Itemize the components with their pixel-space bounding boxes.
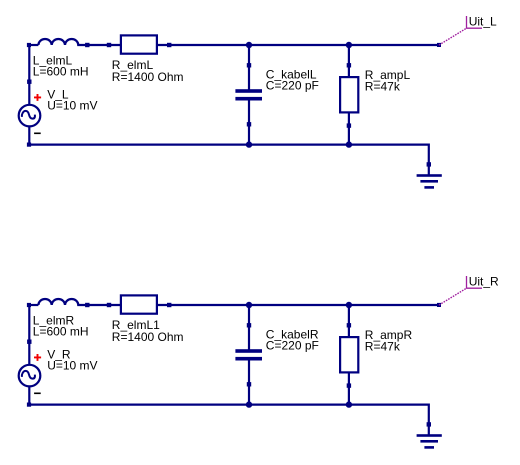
label V_L name and value xyxy=(47,88,97,113)
resistor R_elmL xyxy=(107,35,172,53)
node Uit_L name text xyxy=(469,14,497,28)
wire: capacitor C_kabelR top lead xyxy=(247,305,251,350)
inductor L_elmR xyxy=(38,299,121,307)
wire: resistor R_ampL bottom lead xyxy=(347,112,351,144)
junction: resistor R_ampL bottom node xyxy=(346,141,352,147)
wire: resistor R_ampR top lead xyxy=(347,305,351,337)
ac voltage source V_R xyxy=(19,365,41,387)
minus sign of V_R xyxy=(34,392,41,394)
svg-text:R=47k: R=47k xyxy=(365,79,401,93)
svg-text:U=10 mV: U=10 mV xyxy=(47,359,97,373)
label R_elmL name and value xyxy=(112,58,184,84)
svg-text:L=600 mH: L=600 mH xyxy=(33,325,89,339)
junction: capacitor C_kabelR bottom node xyxy=(246,401,252,407)
ac voltage source V_L xyxy=(19,105,41,127)
label R_elmL1 name and value xyxy=(112,318,184,344)
junction: capacitor C_kabelL bottom node xyxy=(246,141,252,147)
wire: top-left corner to inductor L_elmL xyxy=(27,43,39,47)
svg-text:C=220 pF: C=220 pF xyxy=(266,79,319,93)
svg-text:C=220 pF: C=220 pF xyxy=(266,339,319,353)
wire: capacitor C_kabelR bottom lead xyxy=(247,360,251,404)
plus sign of V_L xyxy=(34,94,41,101)
label C_kabelL name and value xyxy=(266,67,319,92)
junction: resistor R_ampL top node xyxy=(346,42,352,48)
wire: left vertical from corner down to source V_L xyxy=(27,44,31,105)
svg-text:L=600 mH: L=600 mH xyxy=(33,65,89,79)
svg-text:R=1400 Ohm: R=1400 Ohm xyxy=(112,330,184,344)
svg-text:R=1400 Ohm: R=1400 Ohm xyxy=(112,70,184,84)
label R_ampL name and value xyxy=(365,68,411,94)
svg-text:R=47k: R=47k xyxy=(365,339,401,353)
inductor L_elmL xyxy=(38,39,121,47)
capacitor C_kabelR xyxy=(235,349,262,360)
node Uit_R name text xyxy=(469,274,499,288)
resistor R_elmL1 xyxy=(107,295,172,313)
svg-text:Uit_L: Uit_L xyxy=(469,14,497,28)
wire: capacitor C_kabelL bottom lead xyxy=(247,100,251,144)
junction: capacitor C_kabelR top node xyxy=(246,302,252,308)
wire: left vertical from corner down to source V_R xyxy=(27,304,31,365)
wire: resistor R_ampR bottom lead xyxy=(347,372,351,404)
label L_elmL name and value xyxy=(33,53,89,78)
wire: resistor R_elmL to output node xyxy=(157,43,441,47)
capacitor C_kabelL xyxy=(235,89,262,100)
node Uit_R label pointer xyxy=(439,276,482,305)
svg-text:Uit_R: Uit_R xyxy=(469,274,499,288)
ground symbol xyxy=(417,174,442,189)
wire: bottom ground rail xyxy=(29,145,431,176)
wire: resistor R_ampL top lead xyxy=(347,45,351,77)
wire: top-left corner to inductor L_elmR xyxy=(27,303,39,307)
svg-text:U=10 mV: U=10 mV xyxy=(47,99,97,113)
resistor R_ampL xyxy=(340,77,358,112)
wire: bottom ground rail xyxy=(29,405,431,436)
label R_ampR name and value xyxy=(365,328,413,354)
plus sign of V_R xyxy=(34,354,41,361)
junction: resistor R_ampR bottom node xyxy=(346,401,352,407)
resistor R_ampR xyxy=(340,337,358,372)
junction: capacitor C_kabelL top node xyxy=(246,42,252,48)
minus sign of V_L xyxy=(34,132,41,134)
wire: source V_R to bottom rail xyxy=(27,387,31,407)
ground symbol xyxy=(417,434,442,449)
junction: resistor R_ampR top node xyxy=(346,302,352,308)
node Uit_L label pointer xyxy=(439,16,482,45)
label C_kabelR name and value xyxy=(266,327,319,352)
label L_elmR name and value xyxy=(33,313,89,338)
label V_R name and value xyxy=(47,348,97,373)
wire: resistor R_elmL1 to output node xyxy=(157,303,441,307)
wire: source V_L to bottom rail xyxy=(27,127,31,147)
wire: capacitor C_kabelL top lead xyxy=(247,45,251,90)
